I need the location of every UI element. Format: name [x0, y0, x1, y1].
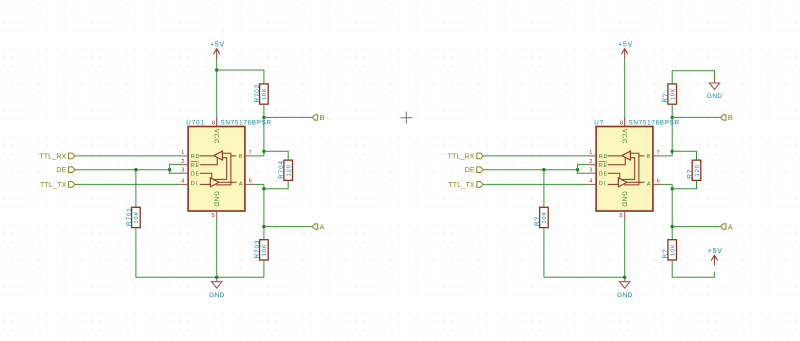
- svg-text:SN75176BPSR: SN75176BPSR: [221, 120, 272, 127]
- resistor R? bias B: [662, 84, 676, 104]
- svg-text:3: 3: [181, 167, 184, 173]
- resistor R? pulldown: [534, 207, 548, 227]
- svg-text:RE: RE: [191, 163, 200, 169]
- junction DE branch: [542, 168, 545, 171]
- resistor R701 pulldown: [126, 207, 140, 227]
- svg-text:B: B: [320, 113, 325, 122]
- svg-text:8: 8: [620, 120, 623, 126]
- junction DE split: [168, 168, 171, 171]
- svg-text:GND: GND: [617, 292, 633, 299]
- svg-text:TTL_RX: TTL_RX: [39, 153, 66, 160]
- wire R to node B: [671, 104, 673, 117]
- junction node B: [671, 116, 674, 119]
- svg-text:7: 7: [249, 150, 252, 156]
- svg-text:TTL_TX: TTL_TX: [40, 182, 67, 189]
- wire GND pin 5: [216, 218, 218, 277]
- wire R703 to ground rail: [263, 260, 265, 277]
- wire to port B: [672, 116, 720, 118]
- junction DE split: [576, 168, 579, 171]
- wire DE split to pins 2 and 3: [578, 164, 588, 173]
- svg-text:10K: 10K: [671, 88, 677, 101]
- svg-text:2: 2: [181, 159, 184, 165]
- wire TTL_RX to pin 1: [483, 155, 588, 157]
- wire to termination resistor top: [672, 151, 696, 160]
- pin numbers 7 and 6: [249, 150, 252, 185]
- svg-text:R?: R?: [662, 93, 669, 103]
- junction termination bottom: [262, 187, 265, 190]
- svg-text:120: 120: [287, 164, 293, 176]
- svg-text:10K: 10K: [134, 211, 140, 224]
- svg-text:B: B: [647, 154, 651, 160]
- +5V supply: [618, 42, 633, 60]
- junction node B: [262, 116, 265, 119]
- origin crosshair: [400, 112, 412, 124]
- port TTL_TX: [448, 182, 483, 189]
- wire TTL_TX to pin 4: [483, 183, 588, 185]
- resistor R702: [254, 84, 268, 104]
- wire pulldown to ground rail: [135, 228, 137, 278]
- wire pulldown to ground rail: [543, 228, 545, 278]
- svg-text:R?: R?: [534, 216, 541, 226]
- svg-text:10K: 10K: [262, 243, 268, 256]
- internal connections: [200, 153, 237, 185]
- svg-text:U?: U?: [594, 120, 604, 127]
- svg-text:A: A: [320, 222, 325, 231]
- svg-text:4: 4: [181, 179, 184, 185]
- pin numbers 7 and 6: [657, 150, 660, 185]
- junction node +5V: [215, 68, 218, 71]
- wire pin 6 to bus: [254, 183, 264, 185]
- ground top right: [707, 80, 723, 100]
- svg-text:R704: R704: [278, 160, 285, 179]
- internal connections: [608, 153, 645, 185]
- junction ground: [215, 276, 218, 279]
- svg-text:5: 5: [619, 213, 622, 219]
- svg-text:1: 1: [589, 150, 592, 156]
- port B: [721, 113, 733, 122]
- wire to port B: [264, 116, 312, 118]
- svg-text:10K: 10K: [542, 211, 548, 224]
- svg-text:DI: DI: [599, 181, 606, 187]
- resistor R? termination: [687, 160, 701, 180]
- svg-text:R?: R?: [662, 248, 669, 258]
- svg-text:DI: DI: [191, 181, 198, 187]
- port DE: [465, 167, 483, 174]
- junction ground: [623, 276, 626, 279]
- port A: [312, 222, 324, 231]
- svg-text:6: 6: [657, 178, 660, 184]
- svg-text:DE: DE: [465, 167, 475, 174]
- wire pin 7 to bus: [254, 155, 264, 157]
- svg-text:10K: 10K: [671, 243, 677, 256]
- port DE: [56, 167, 74, 174]
- resistor R? bias A: [662, 240, 676, 260]
- op-amp U? SN75176BPSR transceiver body: [596, 127, 653, 212]
- svg-text:5: 5: [211, 213, 214, 219]
- port TTL_RX: [39, 153, 75, 160]
- wire termination resistor bottom: [264, 180, 288, 188]
- port TTL_TX: [40, 182, 75, 189]
- wire to port A: [264, 226, 312, 228]
- wire TTL_RX to pin 1: [75, 155, 180, 157]
- junction termination top: [671, 150, 674, 153]
- op-amp U701 SN75176BPSR transceiver body: [188, 127, 245, 212]
- wire +5V branch to R702: [217, 70, 264, 84]
- wire DE split to pins 2 and 3: [170, 164, 180, 173]
- port TTL_RX: [448, 153, 484, 160]
- port B: [312, 113, 324, 122]
- svg-text:+5V: +5V: [210, 42, 225, 49]
- wire to port A: [672, 226, 720, 228]
- svg-text:VCC: VCC: [621, 129, 628, 144]
- svg-text:TTL_RX: TTL_RX: [448, 153, 475, 160]
- pin stubs: [588, 118, 662, 220]
- wire node A vertical: [671, 184, 673, 239]
- pin stubs: [180, 118, 254, 220]
- svg-text:8: 8: [212, 120, 215, 126]
- ground: [209, 279, 225, 299]
- junction termination bottom: [671, 187, 674, 190]
- driver buffer triangle: [618, 178, 627, 187]
- wire +5V to VCC pin 8: [216, 59, 218, 127]
- svg-text:A: A: [647, 181, 651, 187]
- svg-text:R701: R701: [126, 207, 133, 226]
- wire R bias to +5V: [672, 260, 714, 277]
- svg-text:DE: DE: [191, 171, 200, 177]
- ground rail: [544, 276, 625, 278]
- svg-text:SN75176BPSR: SN75176BPSR: [629, 120, 680, 127]
- pin numbers 1-4: [589, 150, 592, 185]
- svg-text:DE: DE: [56, 167, 66, 174]
- wire pin 6 to bus: [662, 183, 673, 185]
- junction node A: [671, 225, 674, 228]
- resistor R703 bias A: [254, 240, 268, 260]
- resistor R704 termination: [278, 160, 292, 180]
- pin numbers 1-4: [181, 150, 184, 185]
- svg-text:RD: RD: [599, 154, 608, 160]
- svg-text:GND: GND: [209, 292, 225, 299]
- svg-text:R702: R702: [254, 84, 261, 103]
- svg-text:A: A: [239, 181, 243, 187]
- wire DE: [75, 169, 170, 171]
- wire node B down to pin 7: [671, 117, 673, 155]
- svg-text:GND: GND: [213, 191, 220, 207]
- svg-text:TTL_TX: TTL_TX: [448, 182, 475, 189]
- svg-text:+5V: +5V: [618, 42, 633, 49]
- ground: [617, 279, 633, 299]
- port A: [721, 222, 733, 231]
- wire DE to pulldown resistor: [543, 170, 545, 208]
- wire termination resistor bottom: [672, 180, 696, 188]
- wire R-pullside top: [672, 71, 714, 84]
- svg-text:1: 1: [181, 150, 184, 156]
- svg-text:VCC: VCC: [213, 129, 220, 144]
- svg-text:B: B: [728, 113, 733, 122]
- junction termination top: [262, 150, 265, 153]
- receiver buffer triangle: [214, 151, 223, 160]
- wire DE: [483, 169, 577, 171]
- svg-text:DE: DE: [599, 171, 608, 177]
- svg-text:6: 6: [249, 178, 252, 184]
- svg-text:GND: GND: [707, 93, 723, 100]
- svg-text:120: 120: [695, 164, 701, 176]
- receiver buffer triangle: [622, 151, 631, 160]
- svg-text:R703: R703: [254, 240, 261, 259]
- svg-text:RE: RE: [599, 163, 608, 169]
- svg-text:2: 2: [589, 159, 592, 165]
- +5V supply: [210, 42, 225, 60]
- junction DE branch: [134, 168, 137, 171]
- wire DE to pulldown resistor: [135, 170, 137, 208]
- wire pin 7 to bus: [662, 155, 673, 157]
- svg-text:4: 4: [589, 179, 592, 185]
- svg-text:RD: RD: [191, 154, 200, 160]
- wire to termination resistor top: [264, 151, 288, 160]
- wire node B down to pin 7: [263, 117, 265, 155]
- wire +5V to VCC pin 8: [624, 59, 626, 127]
- wire R702 to node B: [263, 104, 265, 117]
- svg-text:10K: 10K: [262, 88, 268, 101]
- ground rail: [136, 276, 264, 278]
- svg-text:B: B: [239, 154, 243, 160]
- wire TTL_TX to pin 4: [75, 183, 180, 185]
- wire node A vertical: [263, 184, 265, 239]
- svg-text:A: A: [728, 222, 733, 231]
- wire GND pin 5: [624, 218, 626, 277]
- svg-text:+5V: +5V: [708, 248, 723, 255]
- svg-text:R?: R?: [687, 169, 694, 179]
- +5V supply bottom right: [708, 248, 723, 266]
- svg-text:GND: GND: [621, 191, 628, 207]
- svg-text:U701: U701: [186, 120, 205, 127]
- driver buffer triangle: [210, 178, 219, 187]
- svg-text:7: 7: [657, 150, 660, 156]
- svg-text:3: 3: [589, 167, 592, 173]
- junction node A: [262, 225, 265, 228]
